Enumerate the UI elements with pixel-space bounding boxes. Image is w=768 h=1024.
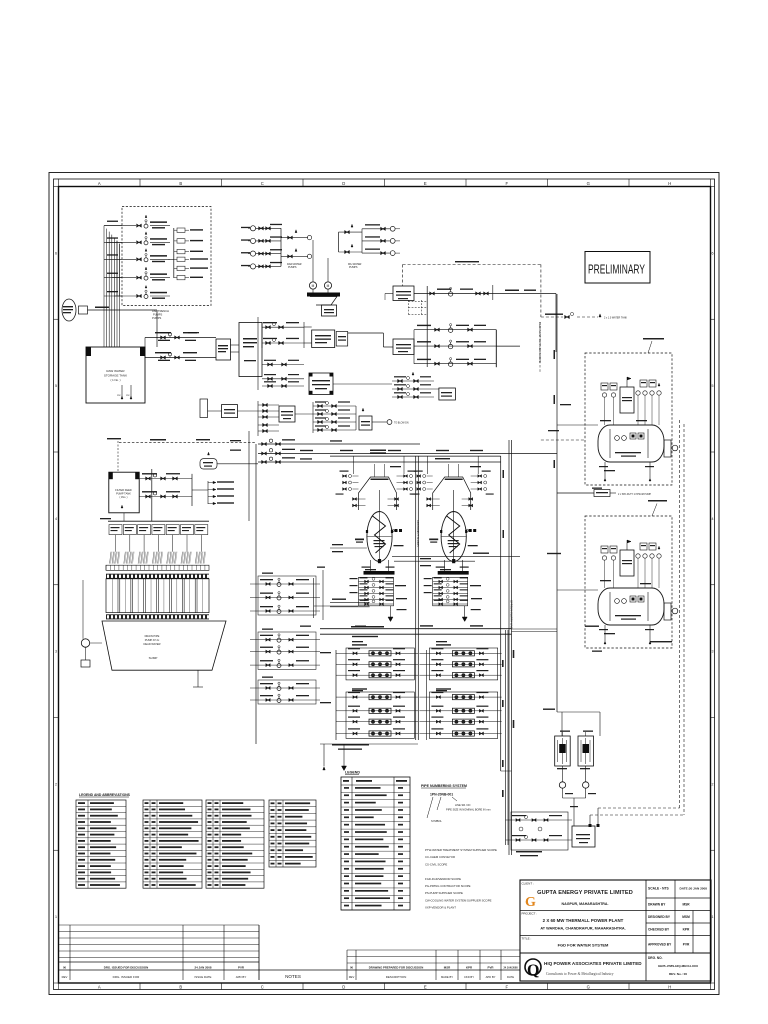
svg-text:XXP-VENDOR & PLANT: XXP-VENDOR & PLANT — [425, 906, 456, 910]
svg-text:DATE: DATE — [507, 975, 514, 979]
svg-text:00: 00 — [350, 966, 354, 970]
svg-text:D: D — [342, 181, 345, 186]
svg-text:CKD BY: CKD BY — [464, 975, 474, 979]
svg-text:MSR: MSR — [682, 903, 690, 907]
svg-text:M: M — [327, 284, 330, 288]
svg-text:PUMPS: PUMPS — [153, 312, 162, 316]
svg-text:MSR: MSR — [444, 966, 451, 970]
svg-text:GYPSUM SLURRY LINE: GYPSUM SLURRY LINE — [510, 600, 514, 629]
svg-text:C: C — [261, 181, 264, 186]
svg-text:PG-PIPING CONTRACTOR SCOPE: PG-PIPING CONTRACTOR SCOPE — [425, 884, 471, 888]
svg-text:5: 5 — [712, 384, 714, 388]
svg-text:LEGEND: LEGEND — [345, 771, 360, 775]
svg-text:5: 5 — [55, 384, 57, 388]
svg-text:REV. No.: 00: REV. No.: 00 — [669, 972, 687, 976]
svg-text:LEGEND AND ABBREVIATIONS: LEGEND AND ABBREVIATIONS — [79, 793, 131, 797]
svg-text:1: 1 — [55, 915, 57, 919]
svg-text:DRAWING PREPARED FOR DISCUSSIO: DRAWING PREPARED FOR DISCUSSION — [369, 966, 424, 970]
svg-text:3: 3 — [712, 650, 714, 654]
svg-text:PUMPS: PUMPS — [349, 266, 358, 269]
svg-text:KPR: KPR — [466, 966, 473, 970]
svg-text:CW-COOLING WATER SYSTEM SUPPLI: CW-COOLING WATER SYSTEM SUPPLIER SCOPE — [425, 898, 492, 902]
svg-text:G: G — [587, 985, 590, 990]
svg-text:DEAD WATER: DEAD WATER — [143, 642, 160, 646]
svg-text:SUMP: SUMP — [149, 656, 158, 660]
svg-text:CHECKED BY: CHECKED BY — [648, 928, 670, 932]
svg-text:ASH TRENCH: ASH TRENCH — [152, 309, 169, 313]
svg-text:A: A — [98, 181, 101, 186]
svg-text:B: B — [179, 181, 182, 186]
svg-text:DATE:30 JAN 2008: DATE:30 JAN 2008 — [680, 887, 708, 891]
svg-text:APPROVED BY: APPROVED BY — [648, 943, 672, 947]
svg-text:2: 2 — [712, 782, 714, 786]
svg-text:C: C — [261, 985, 264, 990]
svg-text:D: D — [342, 985, 345, 990]
svg-text:H: H — [668, 181, 671, 186]
svg-text:00: 00 — [63, 965, 67, 969]
svg-text:DRG. NO.: DRG. NO. — [648, 956, 663, 960]
svg-text:( 1 No. ): ( 1 No. ) — [110, 378, 120, 382]
svg-text:PIPE NUMBERING SYSTEM: PIPE NUMBERING SYSTEM — [421, 784, 467, 788]
svg-text:KPR: KPR — [683, 928, 690, 932]
svg-text:SYMBOL: SYMBOL — [431, 819, 442, 823]
svg-text:3: 3 — [55, 650, 57, 654]
svg-text:2 x 1.0 WATER TANK: 2 x 1.0 WATER TANK — [604, 317, 627, 320]
svg-text:H: H — [668, 985, 671, 990]
svg-text:PS-PUMP SUPPLIER SCOPE: PS-PUMP SUPPLIER SCOPE — [425, 891, 463, 895]
svg-text:A: A — [98, 985, 101, 990]
svg-text:PUMP AT 2x: PUMP AT 2x — [145, 638, 160, 642]
svg-text:E: E — [424, 181, 427, 186]
svg-text:DRAWN BY: DRAWN BY — [648, 903, 666, 907]
svg-text:DRG. ISSUED FOR: DRG. ISSUED FOR — [113, 975, 141, 979]
svg-text:CC-CHEM CONVEYOR: CC-CHEM CONVEYOR — [425, 855, 455, 859]
svg-text:PUMPS: PUMPS — [152, 316, 161, 320]
svg-text:PUMPS: PUMPS — [288, 266, 297, 269]
svg-text:PIPE SIZE IN NOMINAL BORE IN m: PIPE SIZE IN NOMINAL BORE IN mm — [446, 808, 491, 812]
svg-text:STORAGE TANK: STORAGE TANK — [104, 374, 127, 378]
svg-text:G: G — [525, 895, 536, 910]
svg-text:PUMP TANK: PUMP TANK — [116, 492, 131, 496]
svg-text:LINE SR. NO: LINE SR. NO — [455, 803, 470, 807]
svg-text:24 JAN 2008: 24 JAN 2008 — [194, 965, 211, 969]
svg-text:CS-CIVIL SCOPE: CS-CIVIL SCOPE — [425, 862, 447, 866]
svg-text:TO BLOW DN: TO BLOW DN — [394, 423, 409, 425]
svg-text:PVR: PVR — [488, 966, 495, 970]
svg-text:6: 6 — [55, 251, 57, 255]
svg-text:MADE BY: MADE BY — [441, 975, 453, 979]
svg-text:APD BY: APD BY — [236, 975, 247, 979]
svg-text:CLIENT :: CLIENT : — [522, 882, 534, 886]
svg-text:NOTES: NOTES — [285, 974, 301, 979]
svg-text:ISSUE DATE: ISSUE DATE — [195, 975, 212, 979]
svg-text:HIQ POWER ASSOCIATES PRIVATE L: HIQ POWER ASSOCIATES PRIVATE LIMITED — [544, 961, 642, 966]
svg-text:2: 2 — [55, 782, 57, 786]
svg-text:M: M — [312, 284, 315, 288]
svg-text:DRAIN PIPE: DRAIN PIPE — [145, 634, 160, 638]
svg-text:1: 1 — [712, 915, 714, 919]
svg-text:F: F — [505, 181, 508, 186]
svg-text:MSM: MSM — [682, 915, 690, 919]
svg-text:DRG. ISSUED FOR DISCUSSION: DRG. ISSUED FOR DISCUSSION — [104, 965, 149, 969]
svg-text:FGD FOR WATER SYSTEM: FGD FOR WATER SYSTEM — [558, 943, 609, 948]
svg-text:FGD-FGD/VENDOR SCOPE: FGD-FGD/VENDOR SCOPE — [425, 877, 461, 881]
svg-text:Consultants to Power & Metallu: Consultants to Power & Metallurgical Ind… — [546, 972, 614, 976]
svg-text:FILTER FEED: FILTER FEED — [115, 488, 132, 492]
svg-text:24 JAN 2008: 24 JAN 2008 — [503, 967, 518, 970]
svg-text:APD BY: APD BY — [486, 975, 496, 979]
svg-text:F: F — [505, 985, 508, 990]
svg-text:Q: Q — [527, 962, 539, 979]
svg-text:2 x 50% DUTY GYPSUM PUMP: 2 x 50% DUTY GYPSUM PUMP — [618, 494, 651, 496]
svg-text:GUPTA ENERGY PRIVATE LIMITED: GUPTA ENERGY PRIVATE LIMITED — [537, 890, 633, 896]
svg-text:GEPL-PMS-HIQ-MECH-XXX: GEPL-PMS-HIQ-MECH-XXX — [658, 964, 699, 968]
svg-text:DESIGNED BY: DESIGNED BY — [648, 915, 671, 919]
svg-text:ABSORBENT SLURRY: ABSORBENT SLURRY — [416, 520, 420, 547]
svg-text:REV: REV — [62, 975, 68, 979]
svg-text:PTW-WATER TREATMENT SYSTEM SUP: PTW-WATER TREATMENT SYSTEM SUPPLIER SCOP… — [425, 848, 497, 852]
svg-text:4: 4 — [55, 517, 57, 521]
svg-text:E: E — [424, 985, 427, 990]
svg-text:DESCRIPTION: DESCRIPTION — [386, 975, 407, 979]
svg-text:4: 4 — [712, 517, 714, 521]
svg-text:TITLE :: TITLE : — [522, 937, 532, 941]
svg-text:AT WARDHA, CHANDRAPUR, MAHARAS: AT WARDHA, CHANDRAPUR, MAHARASHTRA. — [540, 927, 625, 931]
svg-text:G: G — [587, 181, 590, 186]
svg-text:NAGPUR, MAHARASHTRA.: NAGPUR, MAHARASHTRA. — [562, 902, 609, 906]
svg-text:PROJECT :: PROJECT : — [522, 912, 538, 916]
svg-text:B: B — [179, 985, 182, 990]
svg-text:PVR: PVR — [238, 965, 245, 969]
svg-text:( 1No. ): ( 1No. ) — [120, 496, 128, 499]
svg-text:6: 6 — [712, 251, 714, 255]
svg-text:PVR: PVR — [683, 943, 690, 947]
svg-text:1PN-20NB-001: 1PN-20NB-001 — [430, 793, 453, 797]
svg-text:RAW WATER: RAW WATER — [106, 369, 125, 373]
svg-text:REV: REV — [349, 975, 355, 979]
svg-text:2 X 60 MW THERMALL POWER PLANT: 2 X 60 MW THERMALL POWER PLANT — [543, 918, 624, 923]
svg-text:SCALE - NTS: SCALE - NTS — [648, 887, 669, 891]
svg-text:PRELIMINARY: PRELIMINARY — [588, 262, 645, 277]
